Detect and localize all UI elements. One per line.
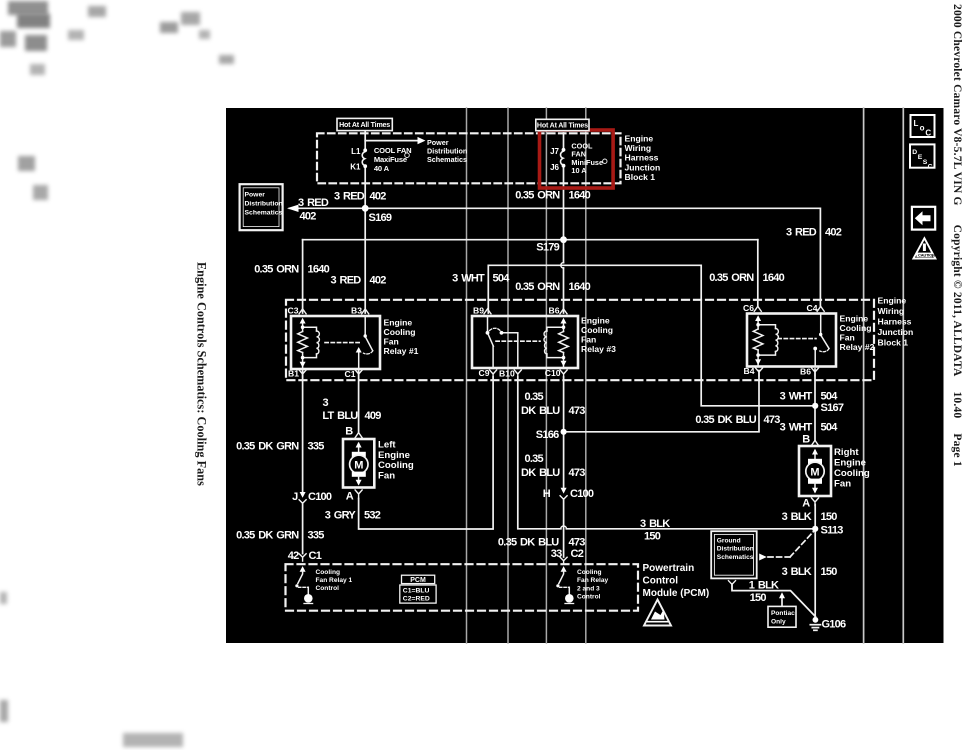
- coil arrows R2: [755, 315, 761, 321]
- svg-text:B10: B10: [499, 368, 515, 378]
- svg-text:Distribution: Distribution: [717, 546, 754, 553]
- pin chevron B9: [484, 309, 491, 314]
- svg-text:150: 150: [750, 592, 767, 604]
- wire: S166 DK BLU line to relay2 B4: [564, 371, 759, 432]
- svg-text:B6: B6: [800, 367, 811, 377]
- wire: relay2 B6 to S167 to right fan B: [814, 369, 816, 440]
- splice S167: [812, 403, 818, 409]
- linkage R2: [778, 338, 816, 340]
- svg-text:Schematics: Schematics: [427, 155, 467, 164]
- pin Y C10: [560, 370, 567, 378]
- svg-text:Cooling: Cooling: [316, 569, 341, 576]
- svg-text:Cooling: Cooling: [840, 323, 872, 333]
- svg-text:C1=BLU: C1=BLU: [403, 587, 430, 594]
- driver Q2: cooling fan relay 2 and 3 control: [556, 566, 573, 603]
- pin labels R1: [288, 305, 363, 379]
- Y below right fan A: [812, 498, 819, 506]
- motor M1: Left Engine Cooling Fan: [343, 439, 374, 488]
- svg-text:B: B: [345, 425, 353, 437]
- svg-text:3 RED: 3 RED: [786, 227, 817, 239]
- pin chevron B3: [362, 309, 369, 314]
- svg-text:Schematics: Schematics: [245, 209, 283, 216]
- svg-text:3 RED: 3 RED: [298, 197, 329, 209]
- svg-text:532: 532: [364, 510, 381, 522]
- svg-text:H: H: [543, 488, 551, 500]
- switch R3: [487, 316, 489, 331]
- label Engine Cooling Fan Relay #2: [840, 313, 875, 352]
- wire: 1 BLK 150 from ground box Y to G106: [732, 584, 815, 617]
- driver Q1: cooling fan relay 1 control: [295, 566, 312, 603]
- svg-text:Control: Control: [577, 594, 601, 601]
- svg-text:C4: C4: [807, 303, 818, 313]
- svg-text:473: 473: [764, 414, 781, 426]
- svg-text:Cooling: Cooling: [581, 325, 613, 335]
- arrow to Power Distribution Schematics: [418, 137, 426, 144]
- svg-text:Harness: Harness: [625, 153, 659, 163]
- svg-text:0.35 DK BLU: 0.35 DK BLU: [695, 414, 756, 426]
- pin labels R2: [743, 303, 818, 376]
- wire crossing vertical 3: [545, 108, 547, 643]
- label Engine Cooling Fan Relay #3: [581, 315, 616, 354]
- connector C100 J symbol: [299, 500, 306, 504]
- svg-text:S179: S179: [536, 242, 559, 254]
- svg-text:1640: 1640: [763, 272, 785, 284]
- ESD symbol triangle: [644, 600, 671, 626]
- svg-text:Engine: Engine: [840, 313, 869, 323]
- wire right margin vertical 1: [863, 108, 865, 643]
- right fan branch labels: [640, 390, 846, 630]
- wire crossing vertical 2: [507, 108, 509, 643]
- wire: relay1 C1 to left fan B: [358, 370, 360, 433]
- Y below left fan A: [355, 490, 362, 498]
- svg-text:CAUTION: CAUTION: [918, 253, 935, 258]
- svg-text:Block 1: Block 1: [878, 338, 909, 348]
- svg-text:0.35 DK BLU: 0.35 DK BLU: [498, 537, 559, 549]
- svg-text:PCM: PCM: [410, 577, 426, 584]
- svg-text:C9: C9: [479, 368, 490, 378]
- svg-text:3 RED: 3 RED: [334, 190, 365, 202]
- svg-text:33: 33: [551, 548, 562, 560]
- wire: 0.35 ORN 1640 bus: [303, 239, 758, 241]
- svg-text:Fan: Fan: [834, 479, 851, 490]
- svg-text:L1: L1: [351, 147, 361, 156]
- svg-text:409: 409: [365, 410, 382, 422]
- svg-text:S166: S166: [536, 429, 559, 441]
- svg-text:LT BLU: LT BLU: [322, 410, 358, 422]
- svg-text:2 and 3: 2 and 3: [577, 585, 600, 592]
- svg-text:Cooling: Cooling: [577, 569, 602, 576]
- label box: Hot At All Times (right): [536, 119, 589, 130]
- svg-text:J6: J6: [550, 163, 559, 172]
- svg-text:D: D: [912, 149, 917, 156]
- svg-text:3 GRY: 3 GRY: [325, 510, 357, 522]
- svg-text:1640: 1640: [569, 281, 591, 293]
- svg-text:B9: B9: [473, 306, 484, 316]
- svg-text:Fan: Fan: [378, 470, 395, 481]
- connector C100 H symbol: [560, 496, 567, 500]
- svg-text:3: 3: [323, 397, 329, 409]
- chevron B right fan: [812, 440, 819, 445]
- svg-text:Distribution: Distribution: [245, 200, 283, 207]
- svg-text:Hot At All Times: Hot At All Times: [339, 121, 390, 129]
- pin Y B1: [299, 370, 306, 378]
- svg-text:Control: Control: [316, 585, 340, 592]
- svg-text:504: 504: [821, 422, 839, 434]
- relay U-R2: Engine Cooling Fan Relay #2: [743, 303, 875, 376]
- svg-text:Module (PCM): Module (PCM): [643, 588, 710, 599]
- svg-text:Relay #3: Relay #3: [581, 344, 616, 354]
- svg-text:C: C: [928, 163, 933, 170]
- linkage R1: [325, 342, 361, 344]
- wire: ORN drop to relay2 C6: [757, 240, 759, 307]
- svg-text:1 BLK: 1 BLK: [749, 580, 779, 592]
- wire: relay1 B1 down to PCM: [302, 370, 304, 554]
- box: Ground Distribution Schematics: [711, 531, 757, 578]
- svg-text:M: M: [354, 459, 363, 471]
- wire: 3 RED 402 bus: [290, 208, 821, 306]
- wire: relay3 B10 down to S113 line with hop: [518, 377, 815, 529]
- svg-text:A: A: [802, 497, 810, 509]
- arrow left end of RED bus: [287, 205, 299, 212]
- svg-text:473: 473: [569, 467, 586, 479]
- svg-text:B1: B1: [288, 369, 299, 379]
- connector 42 C1 pcm symbol: [299, 554, 306, 561]
- connector 33 C2 pcm symbol: [560, 557, 567, 564]
- wire: ORN drop to relay1 C3: [302, 240, 304, 313]
- label Left Engine Cooling Fan: [378, 440, 414, 482]
- arrow pontiac to 1 BLK wire: [779, 592, 785, 598]
- svg-text:DK BLU: DK BLU: [521, 405, 560, 417]
- svg-text:Harness: Harness: [878, 317, 912, 327]
- svg-text:0.35 DK GRN: 0.35 DK GRN: [236, 440, 299, 452]
- svg-text:3 WHT: 3 WHT: [780, 390, 813, 402]
- svg-text:402: 402: [825, 227, 842, 239]
- motor M2: Right Engine Cooling Fan: [799, 446, 831, 496]
- svg-text:K1: K1: [350, 162, 361, 171]
- svg-text:B4: B4: [744, 366, 755, 376]
- relay U-R1: Engine Cooling Fan Relay #1: [288, 305, 419, 379]
- coil R3: [563, 322, 565, 369]
- svg-text:MaxiFuse: MaxiFuse: [374, 155, 407, 164]
- switch R1: [364, 316, 366, 335]
- splice S169: [362, 205, 369, 212]
- svg-text:B3: B3: [351, 305, 362, 315]
- pin Y C1r1: [355, 370, 362, 378]
- svg-text:1640: 1640: [569, 190, 591, 202]
- svg-text:Pontiac: Pontiac: [771, 610, 795, 617]
- svg-text:C1: C1: [309, 550, 322, 562]
- wire crossing vertical 1: [466, 108, 468, 643]
- svg-text:B6: B6: [549, 305, 560, 315]
- svg-text:C10: C10: [545, 368, 561, 378]
- svg-text:Fan Relay: Fan Relay: [577, 577, 608, 584]
- svg-text:3 WHT: 3 WHT: [780, 422, 813, 434]
- wire: branch arrow to Power Distribution Schematics: [365, 140, 418, 142]
- pin chevron C6: [754, 306, 761, 311]
- svg-text:Junction: Junction: [625, 162, 661, 172]
- svg-text:Ground: Ground: [717, 537, 741, 544]
- svg-text:0.35: 0.35: [525, 391, 544, 403]
- black schematic background: [226, 108, 944, 643]
- label Engine Wiring Harness Junction Block 1 (relay row, right): [878, 296, 914, 348]
- svg-text:3 RED: 3 RED: [330, 274, 361, 286]
- svg-text:M: M: [810, 466, 819, 478]
- svg-text:S169: S169: [369, 212, 392, 224]
- svg-text:504: 504: [493, 273, 511, 285]
- svg-text:2000 Chevrolet Camaro V8-5.7L: 2000 Chevrolet Camaro V8-5.7L VIN GCopyr…: [951, 4, 963, 467]
- svg-text:335: 335: [308, 440, 325, 452]
- svg-text:C100: C100: [308, 491, 332, 503]
- svg-text:Powertrain: Powertrain: [643, 563, 695, 574]
- wire crossing vertical 4: [585, 108, 587, 643]
- pin chevron C4: [817, 306, 824, 311]
- wire: left fan A down and right to relay3 C9: [359, 377, 494, 529]
- svg-text:Fan: Fan: [581, 334, 596, 344]
- svg-text:G106: G106: [822, 618, 847, 630]
- svg-text:Only: Only: [771, 618, 786, 625]
- svg-text:J7: J7: [550, 147, 559, 156]
- svg-text:Engine Controls Schematics: Co: Engine Controls Schematics: Cooling Fans: [195, 262, 209, 486]
- svg-text:Fan: Fan: [384, 336, 399, 346]
- svg-text:C3: C3: [288, 306, 299, 316]
- crossing vertical wires (other circuits): [467, 108, 586, 643]
- label Cooling Fan Relay 1 Control: [316, 569, 353, 592]
- svg-text:Relay #1: Relay #1: [384, 346, 419, 356]
- svg-text:150: 150: [821, 566, 838, 578]
- dashed reference arrow to ground distribution box: [759, 554, 767, 561]
- svg-text:150: 150: [644, 531, 661, 543]
- svg-text:3 BLK: 3 BLK: [782, 566, 812, 578]
- svg-text:S167: S167: [821, 402, 844, 414]
- dashed box: Powertrain Control Module (PCM): [286, 564, 639, 611]
- svg-text:L: L: [914, 119, 919, 128]
- svg-text:S113: S113: [821, 525, 844, 537]
- svg-text:Relay #2: Relay #2: [840, 342, 875, 352]
- pin Y B4: [756, 368, 763, 376]
- wire: pontiac only arrow stem: [781, 597, 783, 607]
- svg-text:3 BLK: 3 BLK: [640, 518, 670, 530]
- box: PCM connector ID: [400, 575, 436, 603]
- svg-text:Wiring: Wiring: [878, 306, 905, 316]
- svg-text:Control: Control: [643, 575, 679, 586]
- fuse block texts: [350, 133, 660, 182]
- splice S166: [561, 429, 567, 435]
- svg-text:Junction: Junction: [878, 327, 914, 337]
- wire: relay3 C10 down DK BLU to PCM C2: [563, 377, 565, 557]
- label Cooling Fan Relay 2 and 3 Control: [577, 569, 608, 601]
- svg-text:o: o: [920, 124, 925, 133]
- highlight red box around COOL FAN MiniFuse: [540, 130, 614, 188]
- svg-text:10 A: 10 A: [571, 166, 587, 175]
- wire: MiniFuse J6 down to S179 and B6 with hop over WHT bus: [563, 133, 565, 149]
- svg-text:0.35 ORN: 0.35 ORN: [515, 190, 560, 202]
- svg-text:Wiring: Wiring: [625, 143, 652, 153]
- dashed box: Engine Wiring Harness Junction Block 1 (relay row): [286, 300, 874, 380]
- label box: Hot At All Times (left): [337, 118, 392, 130]
- top wire labels: [254, 190, 842, 293]
- ground G106: [810, 617, 820, 630]
- label Powertrain Control Module (PCM): [643, 563, 710, 599]
- svg-text:0.35 ORN: 0.35 ORN: [515, 281, 560, 293]
- pin Y C9: [490, 370, 497, 378]
- pin labels R3: [473, 305, 561, 378]
- label Right Engine Cooling Fan: [834, 447, 870, 490]
- svg-text:0.35 DK GRN: 0.35 DK GRN: [236, 529, 299, 541]
- pin Y B6r2: [812, 368, 819, 376]
- label Engine Cooling Fan Relay #1: [384, 317, 419, 356]
- icon DESC: [910, 144, 935, 170]
- svg-text:C: C: [925, 128, 931, 137]
- relay U-R3: Engine Cooling Fan Relay #3: [472, 305, 616, 378]
- svg-text:C2: C2: [571, 548, 584, 560]
- dashed box: maxifuse power distribution cell: [317, 133, 621, 183]
- middle DK BLU labels: [498, 391, 780, 560]
- svg-text:3 WHT: 3 WHT: [452, 273, 485, 285]
- fuse MiniFuse symbol: [561, 151, 564, 165]
- icon LOC: [911, 115, 935, 137]
- coil R1: [302, 322, 304, 370]
- svg-text:473: 473: [569, 405, 586, 417]
- icon back arrow: [912, 207, 935, 230]
- switch R2: [820, 314, 822, 334]
- svg-text:Fan Relay 1: Fan Relay 1: [316, 577, 353, 584]
- coil arrows R1: [300, 318, 306, 324]
- svg-text:Engine: Engine: [878, 296, 907, 306]
- svg-text:Engine: Engine: [625, 133, 654, 143]
- coil R2: [757, 319, 759, 367]
- connector chevrons at relay pins: [299, 306, 824, 378]
- chevron B left fan: [355, 433, 362, 438]
- svg-text:0.35: 0.35: [525, 453, 544, 465]
- fuse MaxiFuse symbol: [362, 152, 365, 166]
- svg-text:0.35 ORN: 0.35 ORN: [254, 264, 299, 276]
- splice S113: [812, 526, 818, 532]
- svg-text:1640: 1640: [308, 264, 330, 276]
- svg-text:Schematics: Schematics: [717, 554, 754, 561]
- svg-text:504: 504: [821, 390, 839, 402]
- svg-text:150: 150: [821, 511, 838, 523]
- svg-text:335: 335: [308, 529, 325, 541]
- linkage R3: [496, 340, 540, 342]
- coil arrows R3: [561, 318, 567, 324]
- svg-text:Block 1: Block 1: [625, 172, 656, 182]
- svg-text:Engine: Engine: [834, 458, 866, 469]
- svg-text:Right: Right: [834, 447, 859, 458]
- svg-text:0.35 ORN: 0.35 ORN: [709, 272, 754, 284]
- svg-text:Power: Power: [245, 191, 266, 198]
- pin chevron C3: [299, 309, 306, 314]
- left fan branch labels: [236, 397, 381, 562]
- Y below ground distribution box: [729, 581, 736, 589]
- svg-text:DK BLU: DK BLU: [521, 467, 560, 479]
- pin Y B10: [514, 370, 521, 378]
- wire right margin vertical 2: [902, 108, 904, 643]
- scan noise blobs top-left: [0, 0, 971, 1]
- svg-text:Cooling: Cooling: [384, 327, 416, 337]
- icon warning triangle: [913, 238, 935, 258]
- wire: label drop to fuse L1 and down to S169, B3: [364, 131, 366, 150]
- box: Power Distribution Schematics (left margin): [240, 184, 283, 230]
- svg-text:402: 402: [300, 211, 317, 223]
- label Engine Wiring Harness Junction Block 1 (top): [625, 133, 661, 182]
- contact arrow R1: [356, 347, 362, 353]
- svg-text:402: 402: [370, 274, 387, 286]
- pin chevron B6r3: [560, 309, 567, 314]
- svg-text:Engine: Engine: [384, 317, 413, 327]
- svg-text:Fan: Fan: [840, 332, 855, 342]
- svg-text:C1: C1: [345, 369, 356, 379]
- svg-text:Engine: Engine: [581, 315, 610, 325]
- svg-text:40 A: 40 A: [374, 164, 390, 173]
- svg-text:C6: C6: [743, 303, 754, 313]
- svg-text:J: J: [292, 491, 298, 503]
- svg-text:473: 473: [569, 537, 586, 549]
- svg-text:3 BLK: 3 BLK: [782, 511, 812, 523]
- svg-text:Cooling: Cooling: [834, 468, 870, 479]
- splice S179: [560, 236, 567, 243]
- box: Pontiac Only: [768, 606, 796, 627]
- svg-text:42: 42: [288, 550, 299, 562]
- svg-text:402: 402: [370, 190, 387, 202]
- svg-text:B: B: [802, 433, 810, 445]
- svg-text:A: A: [346, 491, 354, 503]
- svg-text:Hot At All Times: Hot At All Times: [537, 122, 588, 130]
- svg-text:C100: C100: [570, 488, 594, 500]
- svg-text:C2=RED: C2=RED: [403, 596, 430, 603]
- wire: 3 WHT 504 bus: [488, 265, 815, 406]
- wire: right fan A down through S113 to G106: [814, 505, 816, 618]
